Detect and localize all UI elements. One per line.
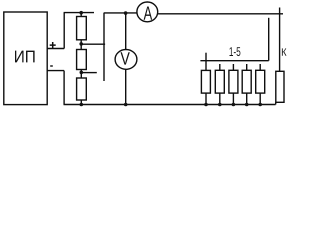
wire bottom rail — [64, 104, 276, 106]
wire R2-R3 lead — [80, 70, 82, 79]
node resistor 3 — [232, 103, 236, 107]
resistor 4 — [242, 70, 251, 93]
label ИП — [15, 51, 35, 63]
wire resistor 2 bottom lead — [219, 93, 221, 104]
wire top lead resistor 5 — [259, 64, 261, 70]
label 1-5 — [230, 47, 241, 56]
wire resistor 1 bottom lead — [205, 93, 207, 104]
ammeter A — [137, 2, 158, 22]
resistor 3 — [229, 70, 238, 93]
wire resistor 4 bottom lead — [246, 93, 248, 104]
wire bus riser dead end — [268, 18, 270, 61]
resistor 5 — [256, 70, 265, 93]
node R3 bottom — [80, 103, 84, 107]
node resistor 1 — [204, 103, 208, 107]
contact K — [276, 71, 284, 102]
node top of R1 — [79, 11, 83, 15]
resistor R2 — [77, 50, 87, 70]
node tap 2 — [80, 71, 84, 75]
label K — [282, 48, 287, 55]
wire top lead resistor 2 — [219, 64, 221, 70]
wire ammeter to right corner — [158, 13, 283, 15]
label - terminal — [50, 65, 53, 67]
resistor R1 — [77, 17, 87, 40]
resistor R3 — [77, 78, 87, 100]
wire hanging vertical from top rail — [103, 13, 105, 81]
wire open stub from tap 2 — [81, 72, 97, 74]
wire + output — [47, 48, 64, 50]
label + terminal — [50, 42, 56, 48]
wire voltmeter top branch — [125, 13, 127, 50]
wire top lead resistor 3 — [232, 64, 234, 70]
power supply box ИП — [4, 12, 47, 105]
wire resistor 5 bottom lead — [259, 93, 261, 104]
wire plug lead resistor 1 — [205, 53, 207, 71]
wire top rail to ammeter — [104, 12, 137, 14]
wire right drop to key — [279, 8, 281, 72]
node resistor 2 — [218, 103, 222, 107]
wire top rail left segment — [64, 12, 94, 14]
resistor 1 — [201, 70, 210, 93]
wire key bottom join — [275, 102, 277, 104]
wire R3 bottom lead — [80, 100, 82, 105]
wire bus 1-5 — [200, 60, 268, 62]
wire riser to top rail — [63, 13, 65, 49]
wire R1-R2 lead — [80, 40, 82, 50]
node resistor 4 — [245, 103, 249, 107]
wire voltmeter bottom branch — [125, 69, 127, 104]
node voltmeter branch — [124, 11, 128, 15]
wire resistor 3 bottom lead — [232, 93, 234, 104]
wire top lead resistor 4 — [246, 64, 248, 70]
node voltmeter bottom — [124, 103, 128, 107]
wire tap to hanging riser — [81, 43, 105, 45]
wire - output — [47, 70, 64, 72]
wire - down leg — [63, 71, 65, 105]
node resistor 5 — [258, 103, 262, 107]
resistor 2 — [215, 70, 224, 93]
node tap 1 — [79, 42, 83, 46]
voltmeter V — [115, 50, 137, 70]
wire R1 top lead — [80, 13, 82, 17]
